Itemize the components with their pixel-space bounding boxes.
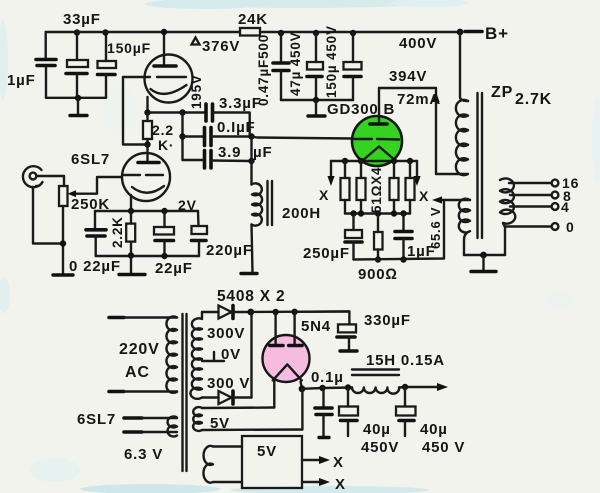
svg-text:900Ω: 900Ω <box>358 266 398 283</box>
svg-text:330µF: 330µF <box>364 312 411 329</box>
svg-text:200H: 200H <box>282 205 321 222</box>
svg-text:X: X <box>319 187 329 203</box>
node junction jack/pot ground <box>60 240 66 246</box>
terminal 6.3V <box>124 416 142 420</box>
node junction row1 <box>179 109 185 115</box>
svg-text:65.6 V: 65.6 V <box>428 207 443 249</box>
wire 220V leads <box>124 316 177 318</box>
node junction OPT ground <box>480 252 487 259</box>
capacitor C2 33uF electrolytic <box>76 32 78 60</box>
wire B+ output rail <box>302 388 352 389</box>
svg-text:450V: 450V <box>361 439 399 456</box>
tube 5N4 envelope <box>263 335 310 382</box>
svg-text:51ΩX4: 51ΩX4 <box>369 167 384 213</box>
capacitor 0.1uF psu <box>322 388 324 407</box>
node junction below 2.2K <box>144 141 150 147</box>
wire K node to coupling caps row1 <box>148 111 207 113</box>
transformer PT 6.3V winding <box>168 417 177 437</box>
wire HV bottom to diode <box>202 396 219 398</box>
capacitor 47uF 450V electrolytic <box>315 33 317 62</box>
anode 1 5N4 <box>274 312 276 344</box>
node junction 22uF top <box>161 208 167 214</box>
cathode lower triode <box>132 186 164 193</box>
svg-text:2V: 2V <box>178 197 197 213</box>
svg-text:22µF: 22µF <box>155 260 193 277</box>
wire to ground <box>77 98 79 114</box>
ground <box>308 114 325 117</box>
svg-text:300V: 300V <box>207 325 245 342</box>
svg-text:250µF: 250µF <box>303 245 350 262</box>
resistor 24K <box>240 28 260 36</box>
inductor 200H grid choke <box>252 183 263 225</box>
diode D2 5408 <box>219 391 232 404</box>
capacitor 22uF electrolytic <box>163 211 165 227</box>
svg-text:2.2: 2.2 <box>152 122 174 138</box>
capacitor 150uF 450V electrolytic <box>352 33 354 62</box>
svg-text:6SL7: 6SL7 <box>71 151 110 168</box>
anode 2 5N4 <box>293 312 295 344</box>
node junction 40u second <box>402 384 408 390</box>
svg-text:5N4: 5N4 <box>301 318 331 335</box>
capacitor 3.9uF <box>183 159 205 161</box>
anode upper triode <box>163 32 165 65</box>
capacitor 0.47uF 500V <box>280 33 282 62</box>
svg-text:ZP: ZP <box>491 84 513 101</box>
wire 5V lower leads <box>213 445 242 447</box>
center tap 0V <box>202 352 224 361</box>
node junction 150u top <box>350 30 356 36</box>
svg-text:2.7K: 2.7K <box>515 91 552 108</box>
node junction plate1 <box>272 309 278 315</box>
inductor choke 15H 0.15A <box>352 388 399 394</box>
resistor 51ohm R4 <box>409 161 411 178</box>
wiper arrow to grid <box>74 177 122 194</box>
wire filament bus <box>331 160 417 162</box>
node junction anode top wire <box>161 29 167 35</box>
svg-text:5408 X 2: 5408 X 2 <box>217 288 285 305</box>
ground <box>119 273 145 276</box>
svg-text:6.3 V: 6.3 V <box>124 446 163 463</box>
anode top cap lead <box>378 88 380 123</box>
wire rectified rail <box>251 310 350 313</box>
tap 8 <box>510 194 552 196</box>
wire jack to pot <box>36 176 64 186</box>
svg-text:195V: 195V <box>189 74 204 109</box>
svg-text:47µ 450V: 47µ 450V <box>288 32 303 96</box>
wire cap bank bottom <box>281 99 353 101</box>
wire grid lead to GD300B <box>252 137 353 139</box>
transformer PT 5V winding upper <box>193 407 202 431</box>
wire bottom of input cap bank <box>46 97 106 99</box>
wire grid down-lead <box>123 77 148 145</box>
tube GD300B envelope <box>352 116 402 166</box>
node junctions filament bus <box>342 158 348 164</box>
arrow X right <box>416 161 418 178</box>
label delta 376V <box>192 38 200 45</box>
svg-text:33µF: 33µF <box>63 11 101 28</box>
svg-text:5V: 5V <box>210 415 230 432</box>
tube 6SL7 lower triode envelope <box>122 153 170 201</box>
tube 6SL7 upper triode envelope <box>145 55 193 103</box>
arrow current 72mA <box>432 92 439 102</box>
svg-text:3.3µF: 3.3µF <box>219 95 262 112</box>
svg-text:400V: 400V <box>399 35 437 52</box>
resistor 2.2K interstage <box>146 113 148 122</box>
svg-text:24K: 24K <box>238 11 268 28</box>
capacitor 330uF electrolytic <box>295 311 350 324</box>
tap 16 <box>509 182 552 184</box>
node junction row2 left <box>179 133 185 139</box>
wire B+ to OPT primary <box>460 32 468 101</box>
grid GD300B dashed <box>354 138 399 141</box>
wire X out upper <box>302 459 322 461</box>
capacitor 220uF electrolytic <box>197 211 200 226</box>
resistor 51ohm R2 <box>360 161 362 178</box>
cathode filament GD300B <box>362 147 396 162</box>
transformer PT HV secondary winding <box>190 312 202 399</box>
transformer OPT core <box>478 93 483 238</box>
node junction 40u first <box>345 384 351 390</box>
wire to ground <box>482 255 484 270</box>
diode D1 5408 <box>219 306 232 319</box>
svg-text:220V: 220V <box>119 341 160 358</box>
svg-text:6SL7: 6SL7 <box>77 411 116 428</box>
wire cathode bus lower triode <box>95 210 198 212</box>
svg-text:40µ: 40µ <box>363 421 391 438</box>
node junction 0.47u top <box>278 30 284 36</box>
transformer OPT primary winding <box>456 100 468 175</box>
node junctions lower wire <box>375 256 381 262</box>
wire choke to ground <box>252 225 253 273</box>
svg-text:220µF: 220µF <box>206 242 253 259</box>
svg-text:376V: 376V <box>202 38 240 55</box>
capacitor C1 1uF <box>45 32 47 59</box>
arrow X left <box>330 161 332 178</box>
wire secondary bottom <box>504 227 506 256</box>
wire rail after choke <box>399 386 440 389</box>
svg-text:2.2K: 2.2K <box>110 216 125 248</box>
capacitor 0.22uF <box>94 211 96 228</box>
resistor 2.2K cathode <box>130 211 132 224</box>
filament 5N4 <box>273 364 302 380</box>
wire feedback bottom to ground bus <box>464 254 505 256</box>
ground <box>471 270 496 273</box>
svg-text:0.1µ: 0.1µ <box>311 369 344 386</box>
wire X out lower <box>302 481 322 483</box>
node junction 150uF top <box>102 29 108 35</box>
transformer PT 5V winding lower <box>203 446 213 483</box>
resistor 51ohm R3 <box>393 161 395 178</box>
wire HV top to diode <box>202 311 219 313</box>
svg-text:5V: 5V <box>257 443 277 460</box>
cathode upper triode <box>151 85 187 94</box>
svg-text:40µ: 40µ <box>420 421 448 438</box>
node junction 2.2K bottom <box>128 252 134 258</box>
wire cathode network bottom <box>96 255 199 257</box>
node junction plate2 <box>291 309 297 315</box>
node junction B+ <box>457 29 464 36</box>
grid upper triode dashed <box>123 76 186 78</box>
wire junction column <box>181 113 183 161</box>
svg-text:AC: AC <box>125 364 150 381</box>
wire filament left to 5V <box>273 381 275 408</box>
svg-text:0V: 0V <box>221 346 241 363</box>
node junction 22uF bottom <box>161 253 167 259</box>
svg-text:B+: B+ <box>485 24 509 43</box>
node junction B+ takeoff <box>299 385 306 392</box>
wire resistor bottom bus <box>345 212 410 214</box>
potentiometer 250K <box>59 186 68 206</box>
svg-text:150µ 450V: 150µ 450V <box>324 25 339 98</box>
node junction 33uF top <box>74 29 80 35</box>
anode lower triode plate bar <box>138 161 159 165</box>
wire junction column right <box>250 137 252 185</box>
ground <box>241 272 257 275</box>
svg-text:0.IµF: 0.IµF <box>217 119 255 136</box>
wire down to 5V lower lead <box>301 389 303 430</box>
wire 5V upper leads <box>202 406 274 409</box>
svg-text:15H 0.15A: 15H 0.15A <box>366 352 445 369</box>
node junction rectifier out <box>247 309 254 316</box>
capacitor 1uF right <box>402 214 404 231</box>
terminal 220V line <box>109 316 124 320</box>
svg-text:K·: K· <box>158 137 174 153</box>
wire cathode net bottom to feedback <box>354 200 445 260</box>
ground <box>340 349 357 352</box>
arrow B+ out <box>437 383 448 391</box>
resistor 51ohm R1 <box>344 161 346 178</box>
wire feedback with arrow <box>437 199 470 201</box>
svg-text:394V: 394V <box>389 68 427 85</box>
node K junction <box>144 109 150 115</box>
resistor 900ohm <box>377 214 379 233</box>
wire jack sleeve down <box>33 187 63 244</box>
transformer PT core <box>183 314 187 471</box>
input jack <box>23 166 43 187</box>
node junction coupling out row3 <box>248 158 254 164</box>
svg-text:X: X <box>419 188 429 204</box>
node junction coupling out row2 <box>248 133 254 139</box>
svg-text:X: X <box>333 454 344 471</box>
capacitor 40uF first electrolytic <box>347 388 349 407</box>
capacitor 3.3uF <box>204 104 208 121</box>
wire B+ stub <box>465 30 482 34</box>
wire to ground <box>130 256 132 273</box>
transformer PT primary winding <box>166 317 177 393</box>
svg-text:µF: µF <box>253 144 272 161</box>
anode lower triode lead <box>146 145 148 162</box>
choke core lines <box>352 370 399 376</box>
capacitor 40uF second electrolytic <box>404 387 406 407</box>
wire 6.3V leads <box>142 417 177 419</box>
node junction caps bottom <box>75 95 81 101</box>
node junctions bottom bus <box>350 210 356 216</box>
tap 0 <box>505 225 552 227</box>
wire anode to primary <box>379 88 462 174</box>
svg-text:0 22µF: 0 22µF <box>69 258 121 275</box>
transformer OPT secondary winding <box>500 178 515 226</box>
svg-text:450 V: 450 V <box>422 439 465 456</box>
svg-text:GD300 B: GD300 B <box>327 101 395 118</box>
wire B+ rail top <box>46 31 240 33</box>
ground <box>53 273 73 276</box>
svg-text:4: 4 <box>561 199 570 215</box>
choke core lines <box>268 181 273 225</box>
node junction cathode <box>128 208 134 214</box>
svg-text:0: 0 <box>566 219 575 235</box>
wire filament right to output <box>301 382 303 389</box>
svg-text:150µF: 150µF <box>107 40 151 56</box>
node junction 47u top <box>313 30 319 36</box>
rectifier filament regulator box 5V <box>242 436 302 488</box>
capacitor 0.1uF <box>183 135 205 137</box>
svg-text:300 V: 300 V <box>207 375 250 392</box>
node junction bank bottom <box>313 97 319 103</box>
wire diode join vertical <box>250 312 252 398</box>
ground <box>70 114 87 117</box>
wire to ground <box>315 100 317 115</box>
svg-text:X: X <box>335 476 346 493</box>
svg-text:1µF: 1µF <box>7 72 36 89</box>
wire pot bottom <box>62 206 64 274</box>
capacitor 250uF electrolytic <box>352 214 354 231</box>
svg-text:3.9: 3.9 <box>218 144 241 161</box>
capacitor C3 150uF electrolytic <box>105 32 107 61</box>
transformer OPT feedback winding 65.6V <box>459 199 470 255</box>
grid lower triode dashed <box>124 174 163 176</box>
node junction 0.1u <box>319 385 325 391</box>
tap 4 <box>510 205 552 207</box>
